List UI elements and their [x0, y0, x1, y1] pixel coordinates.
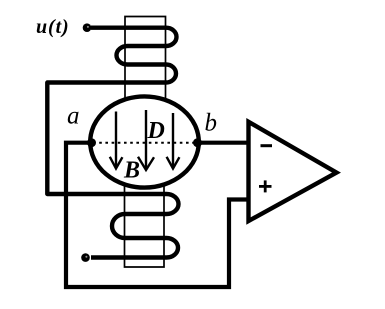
svg-text:u(t): u(t) — [36, 16, 70, 38]
svg-text:D: D — [147, 118, 165, 144]
svg-text:a: a — [67, 103, 80, 130]
svg-text:B: B — [123, 158, 140, 184]
svg-text:b: b — [205, 110, 218, 137]
